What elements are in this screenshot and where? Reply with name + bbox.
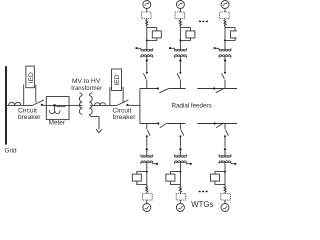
wire CB2 to collector bus	[129, 104, 141, 106]
CT coil on grid wire	[9, 102, 21, 105]
svg-text:Grid: Grid	[5, 147, 18, 154]
meter junction dot	[53, 104, 56, 107]
top feeder breaker F1 dot	[157, 87, 159, 89]
circuit breaker CB2 blade	[117, 100, 129, 106]
top feeder wire A	[140, 88, 157, 90]
bottom feeder wire C	[197, 123, 237, 125]
WTG string B3	[211, 124, 237, 212]
svg-text:MV to HV: MV to HV	[72, 78, 101, 85]
svg-text:IED: IED	[114, 74, 121, 85]
CB2 terminal dot	[126, 104, 128, 106]
top feeder breaker F1 blade	[159, 88, 169, 92]
meter PT drop wire	[54, 105, 56, 110]
CB1 terminal dot	[41, 104, 43, 106]
meter PT coils	[49, 110, 60, 114]
svg-text:transformer: transformer	[71, 86, 102, 92]
svg-text:WTGs: WTGs	[191, 200, 213, 209]
bottom feeder breaker F3 dot	[157, 122, 159, 124]
collector bus vertical	[139, 89, 141, 124]
grid bus	[5, 66, 7, 144]
meter box	[46, 97, 69, 120]
transformer T1 primary winding	[79, 96, 82, 115]
circuit breaker CB1 blade	[33, 100, 45, 106]
wire through meter	[46, 104, 69, 106]
wire grid to breaker	[7, 104, 33, 106]
bottom feeder breaker F4 dot	[214, 122, 216, 124]
svg-text:breaker: breaker	[113, 114, 136, 121]
svg-text:Radial feeders: Radial feeders	[172, 103, 212, 110]
WTG string T3	[214, 1, 240, 89]
top feeder wire B	[169, 88, 185, 90]
top feeder breaker F2 blade	[216, 88, 225, 93]
top feeder breaker F2 dot	[213, 87, 215, 89]
T1 ground branch	[89, 115, 99, 130]
bottom feeder wire A	[140, 123, 158, 125]
wire meter to transformer	[69, 104, 82, 106]
top feeder wire C	[197, 88, 237, 90]
IED U2 wires	[110, 87, 123, 105]
wire transformer to CB2	[90, 104, 117, 106]
WTG string T2	[169, 1, 195, 89]
transformer T1 secondary winding	[89, 96, 92, 115]
ground arrow	[96, 129, 102, 132]
T1 secondary top hook	[89, 93, 92, 96]
IED U1 wires	[24, 85, 36, 106]
svg-text:IED: IED	[28, 72, 35, 83]
svg-text:breaker: breaker	[18, 114, 41, 121]
ellipsis top	[199, 21, 208, 22]
T1 primary top hook	[79, 93, 82, 96]
CT coil after transformer	[95, 103, 106, 106]
meter CT bumps	[56, 105, 65, 106]
wire CB1 to meter	[43, 104, 46, 106]
bottom feeder breaker F4 blade	[216, 123, 224, 128]
bottom feeder wire B	[167, 123, 185, 125]
IED U1 box	[26, 66, 35, 88]
bottom feeder breaker F3 blade	[160, 123, 168, 128]
IED U2 box	[112, 69, 122, 91]
WTG string B2	[166, 124, 192, 212]
ellipsis bottom	[199, 191, 208, 192]
svg-text:Meter: Meter	[49, 120, 66, 127]
WTG string T1	[136, 1, 162, 89]
WTG string B1	[132, 124, 158, 212]
